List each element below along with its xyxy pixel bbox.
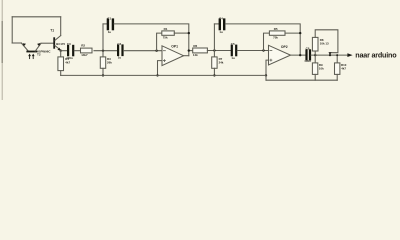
svg-text:1u: 1u [108, 30, 112, 34]
wire C5 to OP2 [237, 50, 268, 52]
capacitor C1 [108, 20, 113, 30]
svg-text:C4: C4 [219, 16, 223, 20]
svg-text:R2: R2 [81, 43, 85, 47]
svg-text:T2: T2 [37, 53, 41, 57]
capacitor C3 [68, 46, 73, 55]
svg-text:1u: 1u [219, 30, 223, 34]
resistor R6 [193, 48, 208, 53]
svg-text:1u: 1u [118, 56, 122, 60]
wire C4 top left [214, 23, 218, 25]
node junction pot R9 [314, 54, 316, 56]
svg-text:naar arduino: naar arduino [355, 51, 397, 60]
wire R1 right to output node [174, 32, 189, 34]
svg-text:4k7: 4k7 [341, 67, 346, 71]
svg-text:10k 13: 10k 13 [320, 42, 329, 46]
svg-text:1u: 1u [231, 56, 235, 60]
wire C2 to OP1 [124, 50, 162, 52]
resistor R9 [312, 63, 317, 75]
node rail junction R3 [102, 74, 104, 76]
phototransistor T2 [21, 43, 41, 52]
wire C3 to R2 [74, 50, 81, 52]
resistor R2 [81, 48, 93, 53]
svg-text:14k: 14k [193, 53, 198, 57]
svg-text:100n: 100n [304, 59, 311, 63]
svg-text:C5: C5 [231, 42, 235, 46]
wire OP1 output stub [184, 55, 189, 57]
output arrow to arduino [347, 53, 352, 57]
wire R7 bottom to rail [213, 68, 215, 75]
capacitor C4 [220, 20, 224, 30]
svg-text:T1: T1 [50, 28, 54, 32]
svg-text:C2: C2 [117, 42, 121, 46]
wire C6 to arrow [311, 54, 348, 56]
node junction R6 C4 R7 [213, 49, 215, 51]
svg-text:R5: R5 [274, 27, 278, 31]
svg-text:R1: R1 [164, 27, 168, 31]
wire supply loop top [12, 16, 61, 18]
svg-text:R6: R6 [193, 44, 197, 48]
resistor R1 [162, 31, 175, 35]
resistor R10 [335, 63, 340, 75]
op-amp OP1 [162, 45, 184, 66]
wire T2 left lead [12, 42, 21, 44]
resistor R4 [58, 57, 64, 71]
wire OP2 output [291, 54, 306, 56]
wire pot top loop [315, 30, 338, 53]
wire R3 shunt top [102, 51, 104, 57]
node R5 output junction [299, 32, 301, 34]
svg-text:C3: C3 [67, 42, 71, 46]
wire R10 bottom to rail [336, 74, 338, 80]
wire R7 shunt top [213, 51, 215, 57]
wire C1 top left [103, 23, 107, 25]
wire R6 to C5 [207, 50, 230, 52]
wire up to R5 [264, 33, 270, 50]
wire R2 to C2 [94, 50, 117, 52]
wire supply loop left [11, 17, 13, 43]
wire OP2 plus input to rail [266, 60, 269, 75]
node R1 output junction [188, 32, 190, 34]
wire R9 top [314, 55, 316, 63]
potentiometer R8 [312, 37, 318, 51]
node T1 emitter junction [60, 50, 62, 52]
wire R5 right to output node [285, 32, 300, 34]
svg-text:75k: 75k [163, 36, 168, 40]
wire up to C1 [102, 24, 104, 51]
node rail junction OP1 plus [156, 74, 158, 76]
pot wiper arrow [329, 52, 332, 55]
node OP1 output junction [188, 49, 190, 51]
op-amp OP2 [269, 45, 291, 65]
svg-text:C6: C6 [306, 47, 310, 51]
node junction R10 [336, 54, 338, 56]
node wiper junction [329, 54, 331, 56]
wire ground rail right [266, 79, 337, 81]
wire T1 emitter down [60, 49, 62, 52]
wire OP1 plus input to rail [158, 61, 163, 76]
svg-text:OP1: OP1 [171, 45, 178, 49]
svg-text:14k7: 14k7 [81, 53, 88, 57]
wire R9 bottom to rail [314, 74, 316, 80]
svg-text:BC170: BC170 [56, 42, 65, 46]
transistor T1 [54, 36, 61, 51]
wire C1 top right to OP1 output [114, 24, 189, 56]
svg-text:C1: C1 [107, 16, 111, 20]
wire R10 top [336, 55, 338, 63]
capacitor C5 [232, 46, 236, 56]
svg-text:26k: 26k [107, 60, 112, 64]
resistor R7 [212, 57, 217, 68]
capacitor C2 [118, 46, 122, 56]
wire R4 bottom to rail [60, 71, 62, 76]
node junction OP1 minus input [155, 50, 157, 52]
wire OP1 output node to R6 [189, 50, 193, 52]
svg-text:4k7: 4k7 [65, 60, 70, 64]
resistor R5 [269, 31, 285, 35]
wire rail step [265, 75, 267, 80]
wire signal stage1 [61, 50, 67, 52]
svg-text:75k: 75k [273, 36, 278, 40]
svg-text:OP2: OP2 [281, 45, 288, 49]
node rail junction OP2 plus [265, 74, 267, 76]
node OP2 output junction [299, 54, 301, 56]
wire pot bottom [314, 51, 316, 55]
wire up to R1 [157, 33, 162, 51]
wire ground rail left [61, 74, 266, 76]
resistor R3 [100, 57, 105, 68]
node junction R2 C1 R3 [102, 50, 104, 52]
wire up to C4 [213, 24, 215, 51]
light arrows into T2 [28, 54, 34, 59]
svg-text:10k: 10k [319, 67, 324, 71]
node rail junction R7 [213, 74, 215, 76]
svg-text:24k: 24k [219, 60, 224, 64]
node junction OP2 minus input [262, 49, 264, 51]
wire R3 bottom to rail [102, 68, 104, 75]
wire T1 collector up [60, 17, 62, 36]
capacitor C6 [307, 50, 311, 59]
wire T2 emitter to T1 base [41, 42, 53, 44]
wire R4 top [60, 51, 62, 57]
wire C4 top right to OP2 output [225, 24, 300, 55]
